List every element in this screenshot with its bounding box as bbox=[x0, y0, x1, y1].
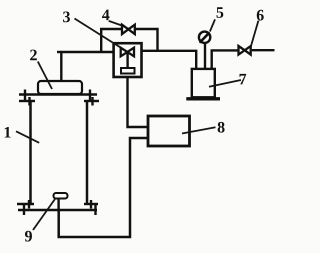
wire box3 to box7 bbox=[143, 51, 197, 69]
vessel 1 top flange bolt left bbox=[28, 97, 30, 106]
vessel 1 bottom flange bolt right bbox=[90, 200, 92, 209]
gauge 5 stem bbox=[204, 44, 206, 69]
valve 3 actuator rect bbox=[121, 68, 135, 74]
vessel 1 top flange tick left bbox=[19, 100, 35, 102]
label 3 bbox=[63, 12, 70, 23]
label 5 bbox=[217, 7, 224, 18]
leader 1 bbox=[16, 131, 39, 143]
lid 2 bbox=[38, 81, 82, 94]
label 2 bbox=[30, 50, 37, 61]
label 6 bbox=[257, 10, 264, 21]
vessel 1 bottom plate bolt left bbox=[23, 205, 25, 215]
label 7 bbox=[240, 74, 247, 84]
label 4 bbox=[102, 10, 109, 21]
leader 4 bbox=[109, 21, 122, 26]
box 7 base bbox=[186, 97, 220, 100]
wire valve 6 outlet bbox=[252, 49, 275, 51]
vessel 1 right wall bbox=[86, 100, 89, 205]
valve inside box 3 bbox=[121, 48, 134, 57]
vessel 1 top plate bolt left bbox=[24, 90, 26, 101]
element 9 stem bbox=[57, 199, 59, 213]
element 9 pill bbox=[54, 193, 68, 199]
wire box7 to valve 6 bbox=[212, 50, 238, 69]
label 8 bbox=[218, 122, 225, 133]
vessel 1 top flange bolt right bbox=[91, 97, 93, 106]
wire box3 bottom to box8 bbox=[128, 78, 149, 128]
leader 8 bbox=[182, 127, 216, 133]
wire box8 to vessel bottom loop bbox=[59, 138, 148, 237]
vessel 1 left wall bbox=[29, 100, 32, 205]
valve 3 stem bbox=[126, 52, 128, 68]
gauge 5 bbox=[199, 32, 210, 43]
vessel 1 top flange tick right bbox=[84, 100, 99, 102]
valve 6 bbox=[239, 46, 251, 55]
box 8 bbox=[148, 116, 190, 146]
box 3 bbox=[114, 43, 142, 77]
leader 7 bbox=[209, 80, 241, 87]
vessel 1 bottom flange bolt left bbox=[28, 200, 30, 209]
leader 5 bbox=[210, 19, 215, 31]
gauge 5 needle bbox=[200, 33, 208, 42]
leader 6 bbox=[251, 21, 258, 46]
vessel 1 bottom flange tick right bbox=[84, 203, 98, 205]
wire corner overshoot bbox=[57, 51, 61, 53]
vessel 1 top plate bbox=[19, 93, 97, 96]
vessel 1 bottom plate bbox=[18, 209, 97, 212]
label 9 bbox=[25, 231, 32, 242]
leader 2 bbox=[38, 62, 52, 90]
label 1 bbox=[5, 127, 11, 138]
wire bypass loop bbox=[101, 29, 157, 52]
wire lid to box 3 bbox=[61, 52, 113, 81]
leader 3 bbox=[75, 19, 121, 48]
valve 4 bbox=[122, 25, 135, 34]
box 7 bbox=[192, 69, 215, 97]
vessel 1 bottom plate bolt right bbox=[94, 205, 96, 215]
vessel 1 top plate bolt right bbox=[89, 90, 91, 101]
leader 9 bbox=[33, 199, 55, 230]
vessel 1 bottom flange tick left bbox=[17, 203, 34, 205]
